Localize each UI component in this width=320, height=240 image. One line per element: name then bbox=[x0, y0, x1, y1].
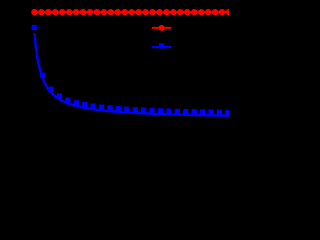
blue series fitted curve line bbox=[34, 33, 229, 116]
legend blue entry: line with square marker bbox=[152, 43, 172, 48]
blue series square markers bbox=[32, 25, 231, 115]
legend red entry: line with circle marker bbox=[152, 25, 172, 31]
red series circle markers bbox=[31, 9, 232, 15]
red series connecting line bbox=[34, 11, 229, 13]
